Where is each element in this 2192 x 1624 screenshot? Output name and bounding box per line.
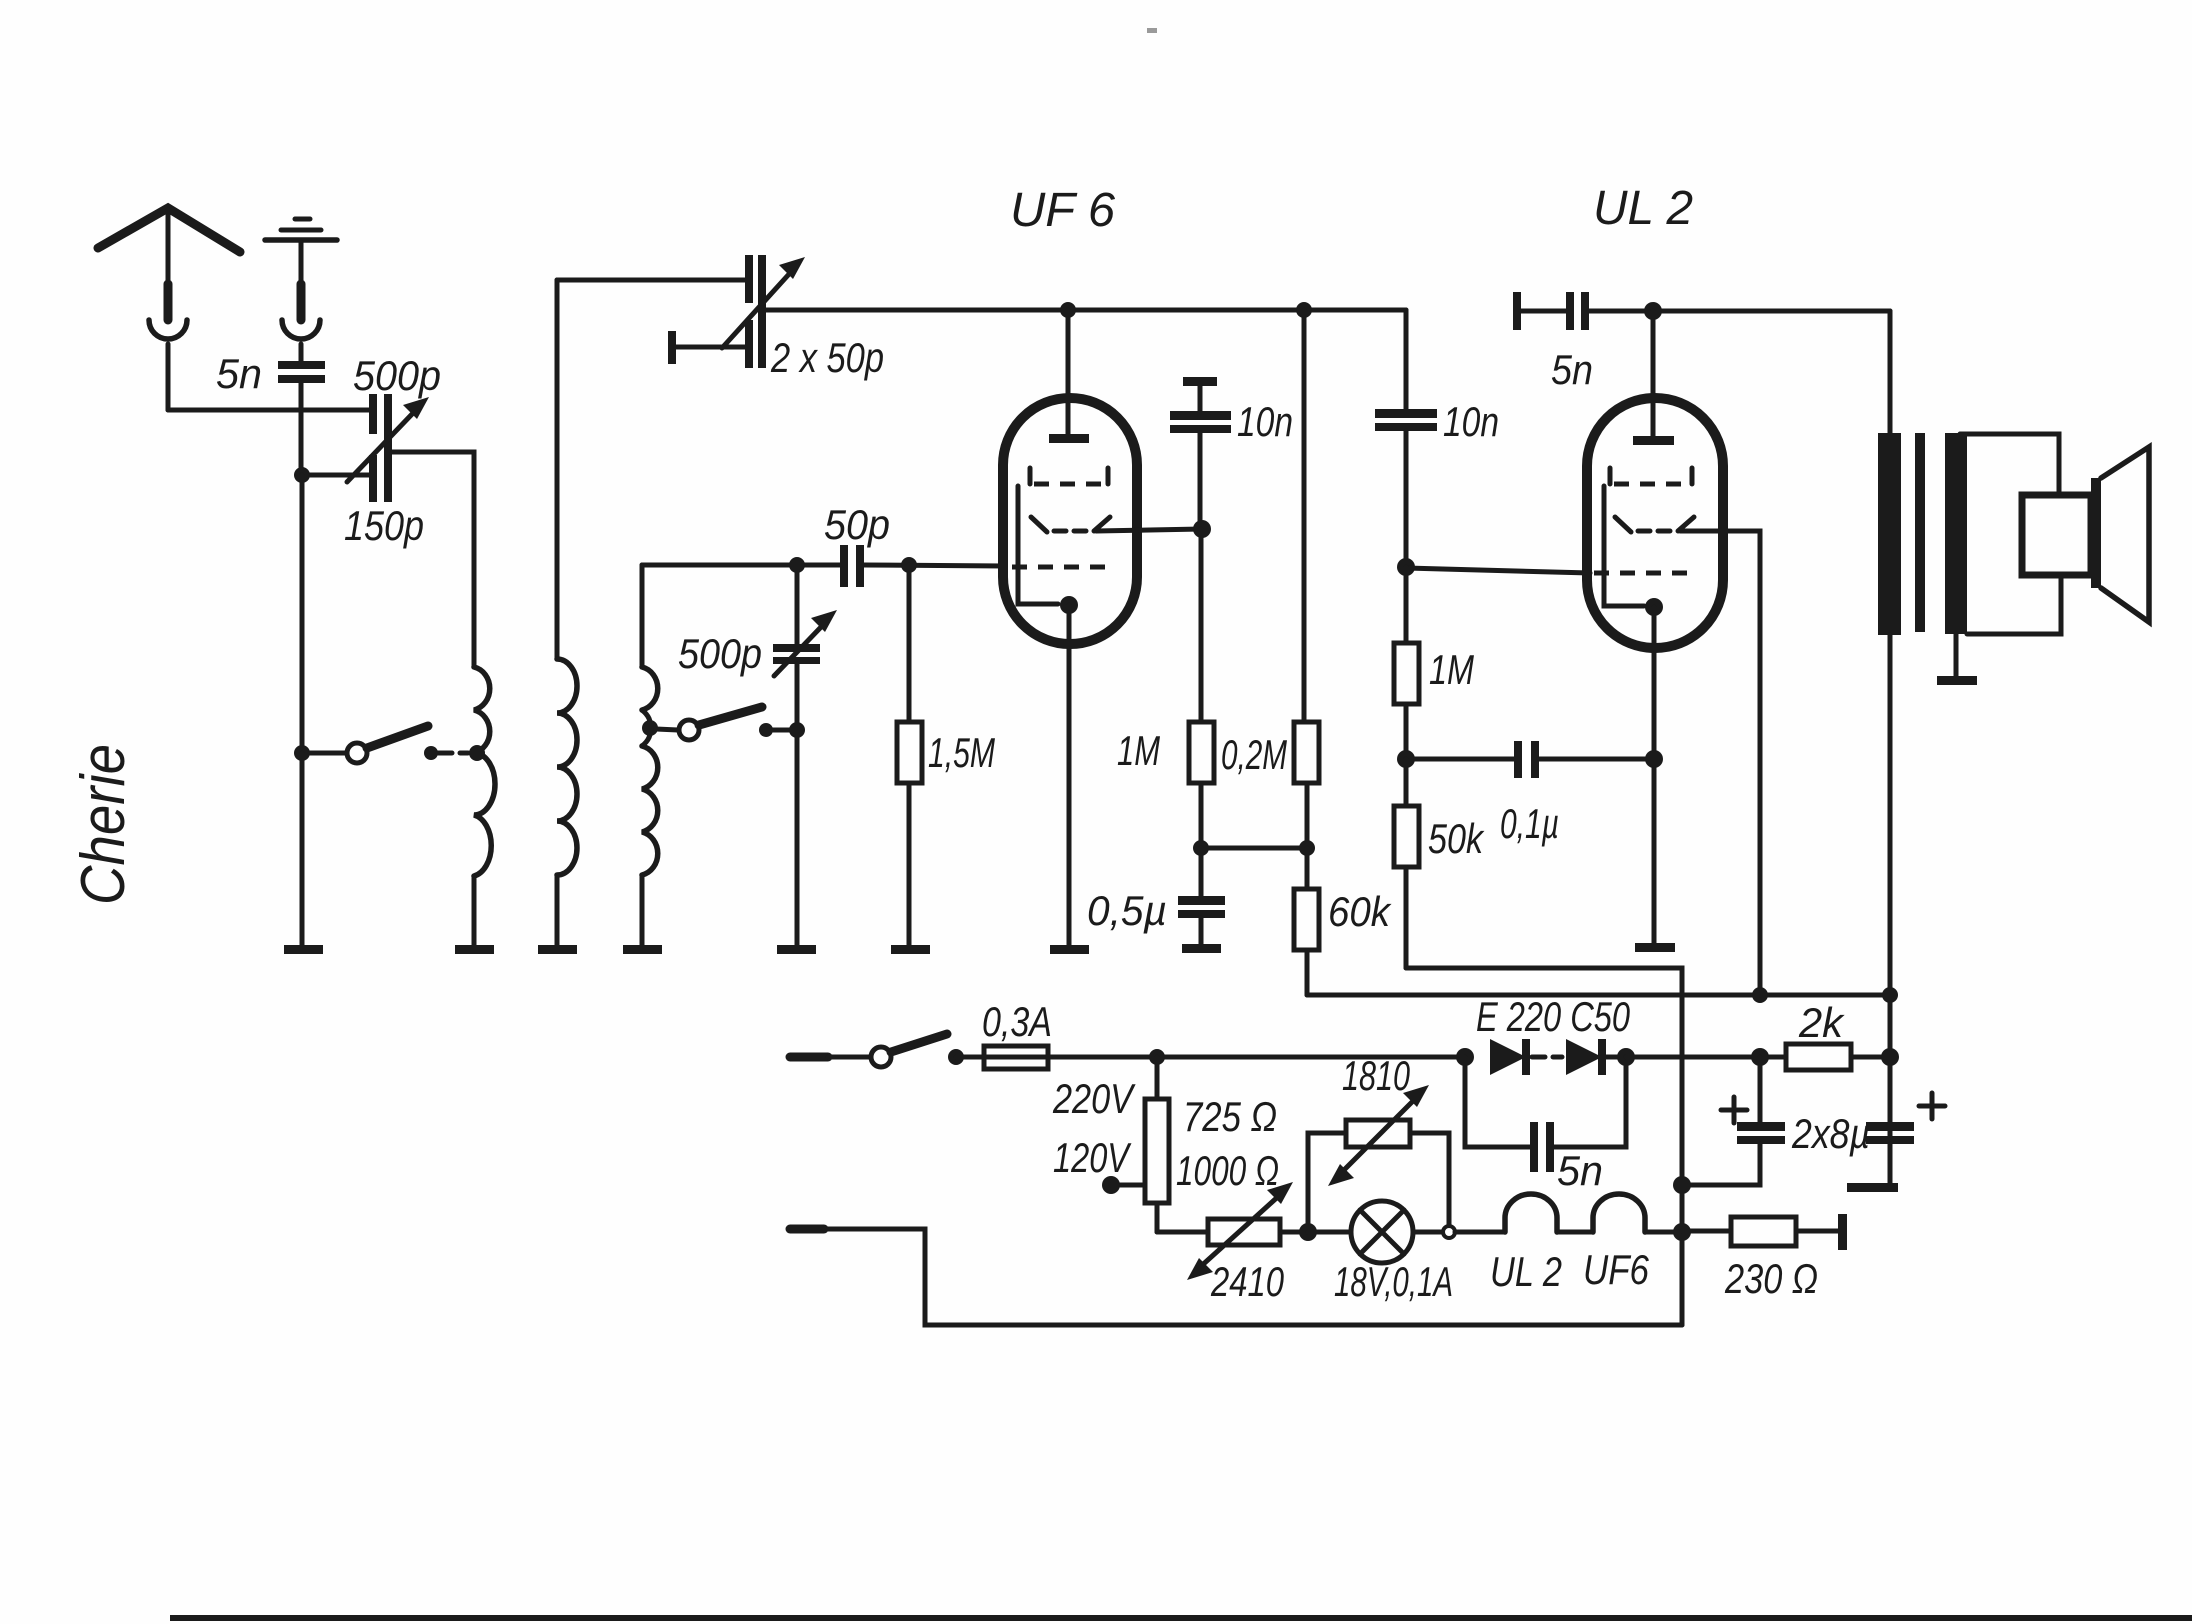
label 60k — [1328, 888, 1392, 935]
svg-text:50p: 50p — [824, 501, 890, 548]
tube UL2 cathode — [1645, 598, 1663, 944]
rheostat R9 1810 — [1308, 1085, 1449, 1232]
ground coil L1 — [455, 945, 494, 954]
mains terminal L — [790, 1053, 870, 1062]
svg-text:2410: 2410 — [1210, 1258, 1284, 1305]
svg-text:UF6: UF6 — [1583, 1246, 1650, 1293]
svg-text:5n: 5n — [1551, 346, 1593, 393]
label Cherie — [69, 744, 138, 905]
svg-text:0,3A: 0,3A — [982, 998, 1052, 1045]
lamp 18V 0,1A — [1308, 1201, 1505, 1263]
wire rotor to coil L1 — [392, 452, 474, 667]
label 5n rectifier — [1557, 1147, 1603, 1194]
capacitor C7 0,5µ — [1178, 848, 1225, 953]
antenna plug socket — [149, 320, 187, 410]
resistor R5 1M — [1394, 567, 1419, 759]
wire antenna bus down — [300, 475, 305, 753]
earth plug socket — [282, 320, 320, 361]
svg-text:5n: 5n — [216, 350, 262, 397]
label 2k — [1798, 999, 1845, 1046]
label 5n UL2 — [1551, 346, 1593, 393]
wire mains to rectifier — [1048, 1049, 1465, 1065]
tube UL2 inner lead — [1604, 486, 1644, 606]
node UF6 anode rail — [1060, 302, 1076, 318]
switch S2 — [656, 707, 805, 740]
ground antenna bus — [284, 945, 323, 954]
tube UF6 cathode — [1060, 596, 1078, 947]
resistor R4 60k — [1294, 848, 1319, 995]
antenna — [98, 208, 240, 320]
ground coil L2 — [538, 945, 577, 954]
label 500p oscillator — [678, 630, 762, 677]
tube UF6 top cap stem — [1049, 310, 1089, 443]
tube UL2 top cap stem — [1633, 311, 1674, 445]
svg-text:500p: 500p — [678, 630, 762, 677]
svg-text:1M: 1M — [1429, 646, 1474, 693]
label 0,5µ — [1087, 887, 1167, 934]
label 0,2M — [1221, 731, 1287, 778]
capacitor C5 50p — [840, 545, 1005, 587]
svg-text:0,2M: 0,2M — [1221, 731, 1287, 778]
label 725 ohm — [1183, 1093, 1277, 1140]
coil L3 oscillator — [642, 565, 658, 947]
speaker frame — [1960, 434, 2061, 634]
transformer T1 core — [1915, 433, 1925, 632]
tube UF6 anode cup — [1031, 517, 1110, 532]
node lamp left — [1299, 1223, 1317, 1241]
svg-text:UL 2: UL 2 — [1490, 1248, 1562, 1295]
label 50k — [1428, 815, 1485, 862]
switch S1 — [294, 726, 468, 763]
ground 500p line — [777, 945, 816, 954]
ground coil L3 — [623, 945, 662, 954]
ground UF6 cathode — [1050, 945, 1089, 954]
fuse F1 0,3A — [984, 1046, 1048, 1069]
capacitor C8 10n second — [1375, 310, 1437, 566]
label 1,5M — [928, 729, 995, 776]
wire antenna bus to ground — [300, 753, 305, 947]
wire antenna to 500p — [168, 408, 370, 413]
label 18V 0,1A — [1334, 1258, 1453, 1305]
speaker driver — [2022, 495, 2091, 575]
svg-text:E 220 C50: E 220 C50 — [1476, 993, 1630, 1040]
earth terminal — [265, 219, 337, 320]
capacitor C12 8µ first — [1673, 1057, 1785, 1194]
resistor R6 50k — [1394, 759, 1419, 968]
resistor R11 2k — [1786, 1044, 1899, 1070]
scan mark top — [1147, 28, 1157, 33]
svg-text:1000 Ω: 1000 Ω — [1176, 1147, 1279, 1194]
variable capacitor C3 2x50p — [557, 255, 805, 368]
svg-text:150p: 150p — [344, 502, 424, 549]
capacitor C9 0,1µ — [1406, 741, 1654, 778]
label 2410 — [1210, 1258, 1284, 1305]
label 10n first — [1237, 398, 1293, 445]
label 230 ohm — [1724, 1255, 1818, 1302]
label UF6 heater — [1583, 1246, 1650, 1293]
label 1M left — [1117, 727, 1160, 774]
label 5n — [216, 350, 262, 397]
svg-text:5n: 5n — [1557, 1147, 1603, 1194]
svg-text:1,5M: 1,5M — [928, 729, 995, 776]
svg-text:10n: 10n — [1237, 398, 1293, 445]
svg-text:10n: 10n — [1443, 398, 1499, 445]
tube UF6 screen bracket — [1030, 468, 1108, 484]
tube UL2 anode cup — [1615, 517, 1694, 532]
svg-text:UF 6: UF 6 — [1010, 184, 1115, 237]
label 1000 ohm — [1176, 1147, 1279, 1194]
label 50p — [824, 501, 890, 548]
label 500p — [353, 352, 441, 399]
diode D1 E220 — [1456, 1039, 1526, 1075]
label UL 2 heater — [1490, 1248, 1562, 1295]
label 0,3A — [982, 998, 1052, 1045]
tube UL2 screen bracket — [1610, 468, 1692, 484]
coil L2 — [557, 280, 577, 947]
plus sign second — [1919, 1093, 1945, 1119]
transformer T1 primary — [1878, 433, 1901, 635]
svg-text:0,5µ: 0,5µ — [1087, 887, 1167, 934]
svg-text:0,1µ: 0,1µ — [1500, 800, 1559, 847]
resistor R7 725/1000 — [1145, 1057, 1208, 1232]
resistor R2 1M — [1189, 529, 1214, 848]
node heater return — [1673, 1223, 1691, 1241]
tube UF6 inner lead — [1018, 486, 1058, 604]
svg-text:500p: 500p — [353, 352, 441, 399]
wire secondary to ground — [1937, 634, 1977, 685]
label 0,1µ — [1500, 800, 1559, 847]
resistor R3 0,2M — [1294, 310, 1319, 848]
label 2x8µ — [1791, 1110, 1870, 1157]
capacitor C11 5n rectifier — [1465, 1057, 1626, 1172]
capacitor C13 8µ second — [1847, 1122, 1914, 1192]
node UF6 anode junction — [1193, 520, 1211, 538]
svg-text:1810: 1810 — [1342, 1052, 1410, 1099]
node bias tap — [1193, 840, 1315, 856]
wire primary to B+ — [1888, 635, 1893, 1184]
label 120V — [1053, 1134, 1132, 1181]
svg-text:60k: 60k — [1328, 888, 1392, 935]
label 1810 — [1342, 1052, 1410, 1099]
label 220V — [1052, 1075, 1136, 1122]
node UL2 top cap — [1644, 302, 1662, 320]
speaker cone — [2091, 447, 2149, 622]
svg-text:50k: 50k — [1428, 815, 1485, 862]
ground R1 — [891, 945, 930, 954]
svg-text:2k: 2k — [1798, 999, 1845, 1046]
rheostat R8 2410 — [1187, 1182, 1308, 1280]
label 2x50p — [770, 334, 884, 381]
node UL2 grid — [1397, 558, 1590, 576]
svg-text:120V: 120V — [1053, 1134, 1132, 1181]
label 1M right — [1429, 646, 1474, 693]
wire 50k to B- bus — [1406, 968, 1682, 1325]
svg-text:2x8µ: 2x8µ — [1791, 1110, 1870, 1157]
wire UF6 grid line — [642, 557, 842, 573]
tube UL2 control grid — [1594, 571, 1696, 576]
label 150p — [344, 502, 424, 549]
svg-text:230 Ω: 230 Ω — [1724, 1255, 1818, 1302]
label E220 C50 — [1476, 993, 1630, 1040]
transformer T1 secondary — [1945, 433, 1967, 634]
svg-text:2 x 50p: 2 x 50p — [770, 334, 884, 381]
label UF 6 — [1010, 184, 1115, 237]
diode D2 C50 — [1532, 1039, 1635, 1075]
ground UL2 cathode — [1635, 943, 1675, 952]
resistor R10 230 — [1682, 1214, 1847, 1250]
svg-text:220V: 220V — [1052, 1075, 1136, 1122]
variable capacitor C4 500p oscillator — [773, 565, 837, 947]
node cathode 0,1µ — [1645, 750, 1663, 768]
tube UF6 envelope — [1003, 398, 1137, 644]
plus sign first — [1721, 1097, 1747, 1123]
tube UF6 control grid — [1012, 565, 1112, 570]
svg-text:Cherie: Cherie — [69, 744, 138, 905]
wire top rail — [766, 308, 1406, 313]
wire UF6 anode out — [1096, 529, 1202, 531]
node 120V tap — [1102, 1176, 1145, 1194]
wire UL2 screen out — [1680, 531, 1760, 995]
wire screen supply rail — [1307, 987, 1898, 1003]
label UL 2 — [1593, 182, 1693, 235]
heater UF6 — [1557, 1194, 1682, 1232]
scan edge bottom — [170, 1615, 2192, 1621]
svg-text:1M: 1M — [1117, 727, 1160, 774]
switch S3 mains — [871, 1034, 984, 1067]
svg-text:18V,0,1A: 18V,0,1A — [1334, 1258, 1453, 1305]
capacitor C6 10n — [1170, 377, 1231, 529]
coil L1 antenna — [469, 667, 495, 947]
resistor R1 1,5M — [897, 565, 922, 947]
heater UL2 — [1505, 1194, 1557, 1232]
capacitor C1 5n — [278, 361, 325, 471]
node 0.2M rail — [1296, 302, 1312, 318]
wire rectifier out — [1626, 1048, 1786, 1066]
node 1M 50k junction — [1397, 750, 1415, 768]
svg-text:UL 2: UL 2 — [1593, 182, 1693, 235]
mains terminal N — [790, 1229, 1682, 1325]
capacitor C10 5n UL2 — [1513, 292, 1890, 330]
tube UL2 envelope — [1587, 398, 1723, 648]
svg-text:725 Ω: 725 Ω — [1183, 1093, 1277, 1140]
wire UL2 anode to transformer — [1888, 311, 1893, 433]
node antenna tap — [294, 467, 370, 483]
label 10n second — [1443, 398, 1499, 445]
variable capacitor C2 500p/150p — [347, 394, 429, 502]
